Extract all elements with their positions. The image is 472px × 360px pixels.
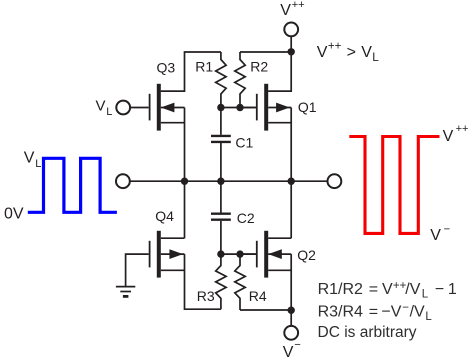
svg-text:R3/R4=−V−/VL: R3/R4=−V−/VL [318, 302, 433, 323]
svg-text:R4: R4 [249, 288, 267, 304]
svg-text:Q3: Q3 [157, 59, 176, 75]
svg-text:Q2: Q2 [297, 247, 316, 263]
svg-text:R1: R1 [195, 59, 213, 75]
svg-text:C2: C2 [237, 210, 255, 226]
svg-text:0V: 0V [4, 206, 24, 223]
svg-text:R2: R2 [250, 59, 268, 75]
svg-text:R1/R2=V++/VL−1: R1/R2=V++/VL−1 [318, 280, 457, 301]
svg-text:C1: C1 [235, 135, 253, 151]
svg-text:V++>VL: V++>VL [317, 39, 380, 64]
svg-text:Q4: Q4 [155, 208, 174, 224]
svg-text:DC is arbitrary: DC is arbitrary [318, 324, 417, 341]
svg-text:R3: R3 [197, 288, 215, 304]
svg-text:Q1: Q1 [298, 99, 317, 115]
